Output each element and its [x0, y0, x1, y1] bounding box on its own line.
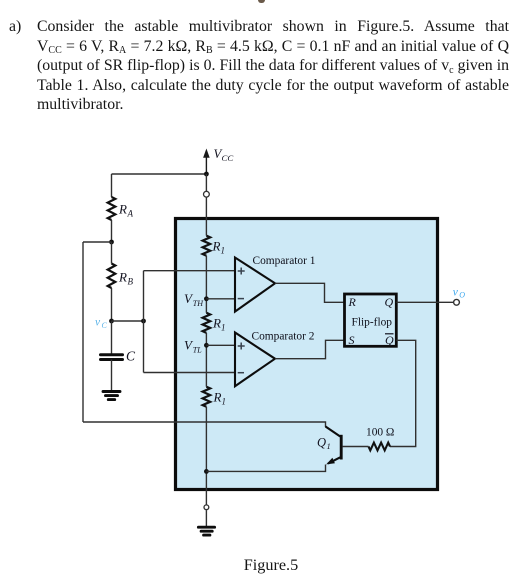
label Comparator 2: [252, 330, 315, 342]
label Flip-flop: [352, 317, 393, 329]
wire: Qbar output down to 100ohm resistor: [390, 340, 416, 446]
transistor Q1: [326, 427, 342, 465]
label RA: [118, 202, 134, 219]
wire: left branch vertical top (to RA): [111, 174, 113, 197]
op-amp comparator 1: [235, 258, 275, 312]
wire: vc node down to capacitor: [111, 321, 113, 354]
svg-text:1: 1: [221, 323, 226, 333]
wire: vc to comparator2 - input: [144, 372, 236, 374]
svg-text:C: C: [126, 349, 136, 364]
label Comparator 1: [253, 255, 316, 267]
node: tap junction: [141, 319, 146, 324]
wire: junction to terminal circle: [205, 174, 207, 191]
wire: discharge line y=422 to transistor collector: [83, 422, 326, 427]
top smudge (cropped char from previous page line): [258, 0, 265, 3]
wire: left rail vertical x=83: [82, 242, 84, 422]
op-amp comparator 2: [235, 333, 275, 387]
svg-text:O: O: [459, 291, 465, 300]
svg-text:R: R: [118, 202, 127, 217]
resistor 100 ohm: [369, 443, 391, 451]
label RB: [118, 270, 134, 287]
wire: Vcc rail horizontal y=174: [112, 173, 207, 175]
svg-text:1: 1: [222, 397, 227, 407]
label R1 top: [212, 239, 226, 256]
label VTL: [184, 338, 202, 355]
shaded IC block (blue box): [176, 219, 438, 490]
svg-text:Comparator 2: Comparator 2: [252, 330, 315, 342]
wire: R1 to VTH: [205, 256, 207, 313]
caption Figure.5: [0, 556, 517, 575]
wire: VTL to comparator2 + input: [206, 344, 235, 346]
pin label Qbar: [385, 333, 394, 347]
label Vcc: [214, 147, 234, 163]
svg-text:1: 1: [327, 441, 331, 451]
svg-text:TH: TH: [193, 299, 204, 308]
wire: comparator1 output to R input: [275, 283, 345, 302]
flip-flop U1 box: [345, 294, 397, 346]
wire: capacitor to ground: [111, 360, 113, 391]
problem paragraph: [37, 17, 509, 115]
node VTH: [204, 296, 209, 301]
svg-text:Flip-flop: Flip-flop: [352, 317, 393, 329]
wire: emitter to ground rail: [206, 465, 325, 472]
svg-text:v: v: [95, 317, 101, 329]
pin label S: [349, 333, 355, 347]
wire: VTH to comparator1 - input: [206, 298, 235, 300]
svg-text:S: S: [349, 333, 355, 347]
label 100 ohm: [366, 426, 394, 438]
node: junction dot Vcc rail: [204, 172, 209, 177]
capacitor C: [101, 355, 123, 360]
wire: resistor to base: [343, 446, 369, 448]
ground (bottom): [198, 527, 214, 535]
label C: [126, 349, 136, 364]
wire: circle to ground: [205, 510, 207, 526]
wire: vc to comparator1 + input: [144, 270, 236, 272]
svg-text:Q: Q: [385, 333, 394, 347]
svg-text:R: R: [348, 295, 357, 309]
power Vcc arrow: [203, 149, 210, 175]
svg-text:TL: TL: [193, 345, 202, 354]
label vo (blue): [453, 287, 465, 300]
wire: RB to vc node: [111, 288, 113, 321]
node VTL: [204, 343, 209, 348]
svg-text:Comparator 1: Comparator 1: [253, 255, 316, 267]
pin terminal open circle (bottom): [204, 505, 209, 510]
wire: R1 to VTL: [205, 333, 207, 387]
svg-text:Q: Q: [385, 295, 394, 309]
wire: tap vertical x=143.5: [143, 271, 145, 373]
resistor RA: [108, 197, 116, 220]
pin terminal open circle (top): [204, 191, 210, 197]
svg-text:R: R: [118, 270, 127, 285]
node: RA-RB junction: [109, 240, 114, 245]
node vc: [109, 319, 114, 324]
wire: junction to left rail: [83, 241, 112, 243]
node: emitter junction: [204, 469, 209, 474]
label Q1: [317, 436, 331, 452]
label VTH: [184, 291, 204, 308]
svg-text:R: R: [213, 390, 222, 405]
wire: comparator2 output to S input: [275, 340, 345, 358]
svg-text:A: A: [127, 209, 134, 219]
label vc (blue): [95, 317, 108, 331]
svg-text:R: R: [212, 316, 221, 331]
ground (capacitor): [103, 392, 120, 400]
svg-text:Q: Q: [317, 436, 326, 450]
svg-text:1: 1: [221, 246, 226, 256]
pin terminal open circle vo: [454, 299, 460, 305]
wire: vc node to tap junction: [112, 320, 144, 322]
wire: Q output to vo terminal: [396, 301, 453, 303]
label R1 bottom: [213, 390, 227, 407]
label R1 middle: [212, 316, 226, 333]
resistor R1 (middle): [203, 313, 211, 333]
wire: RA to node: [111, 220, 113, 242]
svg-text:R: R: [212, 239, 221, 254]
list marker a): [9, 17, 21, 37]
pin label R: [348, 295, 357, 309]
svg-text:v: v: [453, 287, 459, 299]
svg-text:CC: CC: [222, 153, 234, 163]
wire: R1 bottom to emitter junction and out of box: [205, 407, 207, 505]
pin label Q: [385, 295, 394, 309]
wire: main vertical from circle into box down to first R1: [205, 197, 207, 235]
resistor RB: [108, 264, 116, 289]
resistor R1 (bottom): [203, 387, 211, 407]
svg-text:C: C: [102, 321, 108, 330]
resistor R1 (top): [203, 236, 211, 256]
svg-text:100 Ω: 100 Ω: [366, 426, 394, 438]
wire: node to RB: [111, 242, 113, 264]
svg-text:B: B: [128, 277, 134, 287]
